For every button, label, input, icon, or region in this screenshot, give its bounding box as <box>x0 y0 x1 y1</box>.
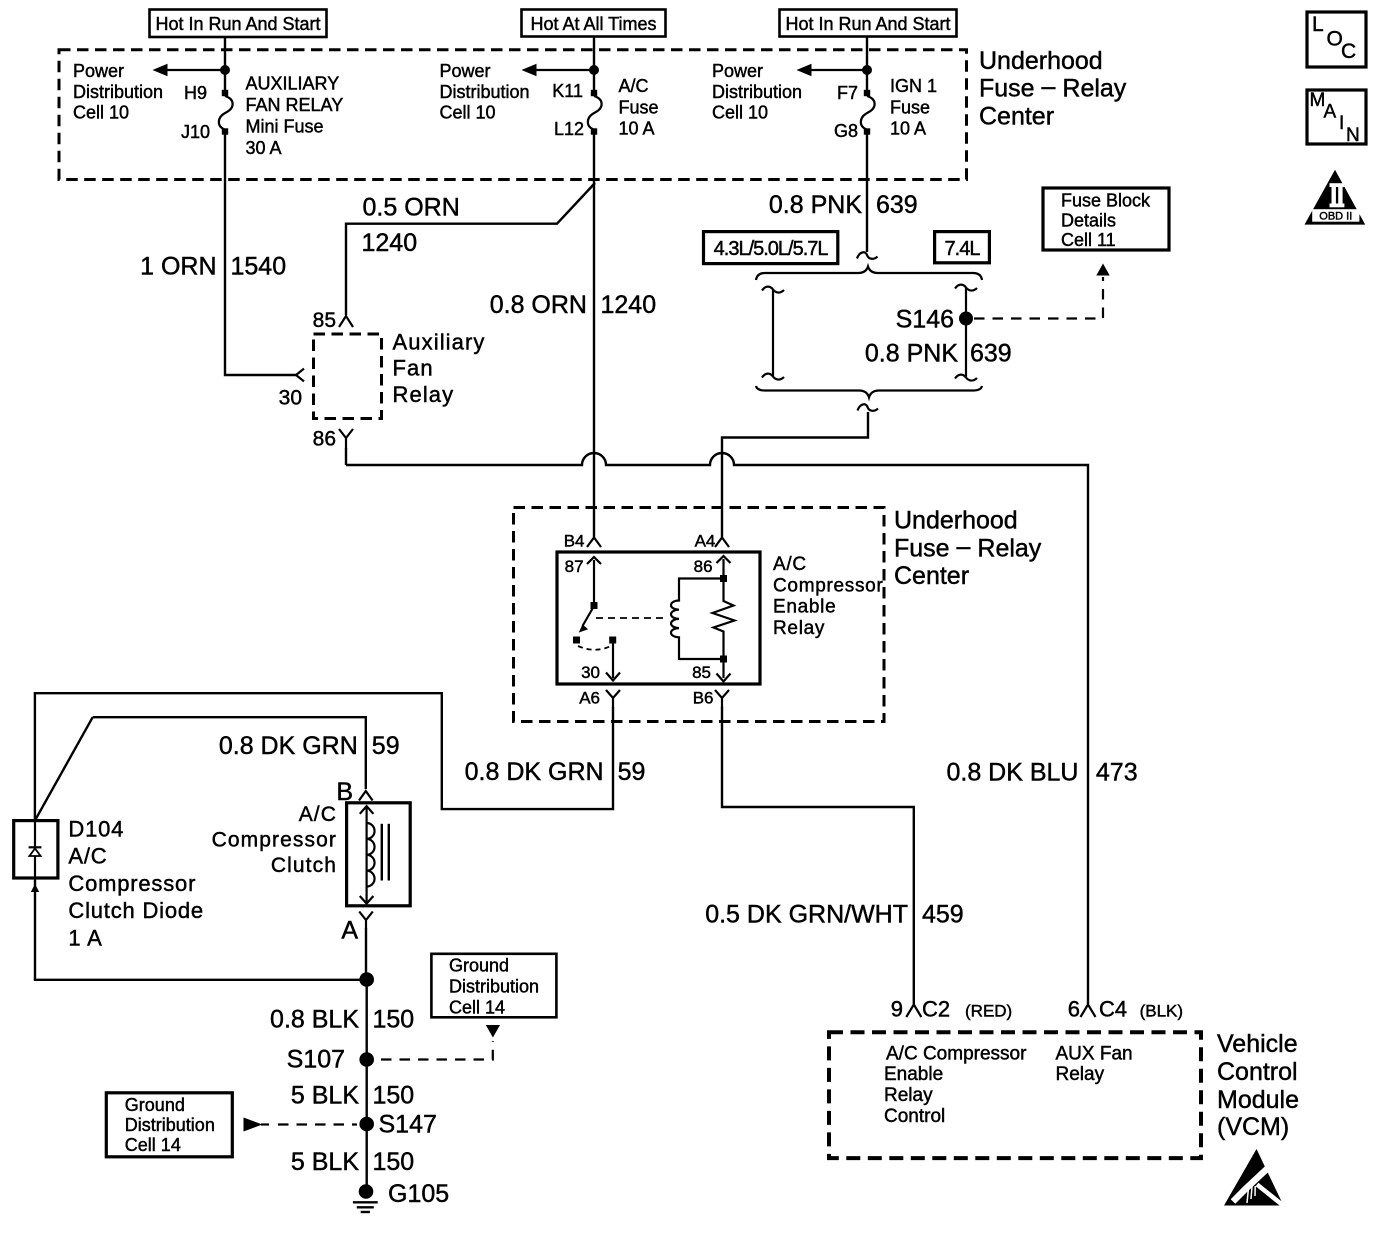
wire: 0.5 ORN 1240 branch from A/C fuse wire to Aux relay pin 85 <box>346 183 595 315</box>
connector fork pin A4 <box>715 538 729 548</box>
svg-text:Relay: Relay <box>773 618 825 639</box>
node: Hot At All Times (center feed) <box>522 10 666 37</box>
label: A/C Compressor Enable Relay <box>773 554 883 639</box>
svg-text:1240: 1240 <box>601 291 657 319</box>
svg-text:J10: J10 <box>181 122 210 142</box>
clutch coil with double-ended arrow <box>360 806 375 903</box>
svg-text:L: L <box>1312 13 1324 36</box>
svg-text:0.5 ORN: 0.5 ORN <box>363 193 460 221</box>
svg-text:Clutch: Clutch <box>271 854 337 877</box>
label: 0.5 DK GRN/WHT 459 <box>705 901 964 929</box>
svg-text:87: 87 <box>565 557 584 576</box>
coil bottom pad (pin 85 node) <box>720 656 727 663</box>
label: 0.8 DK GRN 59 (left, at clutch B) <box>219 732 400 760</box>
module: Vehicle Control Module box (dashed) <box>829 1032 1201 1158</box>
junction dot fuse2 <box>589 65 599 75</box>
relay internal pin 87 arrow up <box>587 557 601 604</box>
svg-text:Cell 14: Cell 14 <box>125 1135 181 1155</box>
svg-text:150: 150 <box>373 1148 415 1176</box>
coil top pad (pin 86 node) <box>720 575 727 582</box>
dashed reference from S107 to Ground Distribution <box>381 1041 493 1060</box>
pin label 9 C2 (RED) <box>891 997 1012 1022</box>
svg-text:0.8 DK GRN: 0.8 DK GRN <box>219 732 358 760</box>
brace (top) over splice options <box>756 267 982 281</box>
splice S147 <box>359 1117 374 1132</box>
pin G8 <box>864 128 870 134</box>
svg-text:N: N <box>1346 125 1360 146</box>
svg-text:1 A: 1 A <box>68 925 102 950</box>
svg-text:59: 59 <box>618 758 646 786</box>
svg-text:A: A <box>1324 102 1337 123</box>
svg-text:0.5 DK GRN/WHT: 0.5 DK GRN/WHT <box>705 901 908 929</box>
junction dot fuse1 <box>220 65 230 75</box>
junction dot fuse3 <box>862 65 872 75</box>
wire: IGN1 fuse output down to splice brace <box>866 134 868 252</box>
connector fork pin B4 <box>587 538 601 548</box>
svg-text:86: 86 <box>694 557 713 576</box>
node: Hot In Run And Start (right feed) <box>780 10 957 37</box>
pin H9 <box>222 90 228 96</box>
svg-text:0.8 BLK: 0.8 BLK <box>270 1006 359 1034</box>
relay K1: Auxiliary Fan Relay (dashed outline) <box>314 334 382 419</box>
wire from Hot box 3 down <box>866 37 868 91</box>
svg-text:30: 30 <box>279 387 302 410</box>
wire: B6 output to VCM pin C2 (0.5 DK GRN/WHT 459) <box>722 707 914 1004</box>
fuse F3: IGN 1 Fuse 10A <box>712 37 937 141</box>
svg-text:459: 459 <box>922 901 964 929</box>
svg-text:IGN 1: IGN 1 <box>890 76 937 96</box>
svg-text:Ground: Ground <box>449 955 509 975</box>
label: 5 BLK 150 (above S147) <box>291 1082 414 1110</box>
svg-text:5 BLK: 5 BLK <box>291 1148 359 1176</box>
relay coil <box>671 579 720 660</box>
ground G105 <box>353 1180 449 1212</box>
svg-text:B6: B6 <box>693 689 714 708</box>
svg-text:10 A: 10 A <box>890 119 926 139</box>
label: Underhood Fuse-Relay Center (top) <box>979 47 1127 130</box>
svg-text:OBD II: OBD II <box>1319 210 1352 222</box>
svg-text:Center: Center <box>894 562 969 590</box>
svg-text:1 ORN: 1 ORN <box>140 253 216 281</box>
dashed actuator link from switch to coil <box>596 617 664 619</box>
svg-text:C: C <box>1341 40 1356 63</box>
brace (bottom) under splice options <box>756 386 982 398</box>
svg-text:A: A <box>341 917 358 945</box>
connector fork at Aux relay pin 85 <box>339 316 353 327</box>
svg-text:30: 30 <box>581 663 600 682</box>
svg-text:L12: L12 <box>554 119 584 139</box>
wire: clutch A down to ground junction <box>365 928 367 980</box>
svg-text:A/C: A/C <box>68 844 107 869</box>
svg-text:A/C: A/C <box>619 76 649 96</box>
svg-text:Compressor: Compressor <box>773 575 883 596</box>
wire: 1 ORN 1540 from J10 down to Aux Fan Relay pin 30 <box>225 134 296 375</box>
svg-text:A4: A4 <box>695 531 716 550</box>
wire to Power Distribution arrow (fuse2) <box>535 69 594 71</box>
svg-text:Distribution: Distribution <box>712 82 802 102</box>
pin label 6 C4 (BLK) <box>1068 997 1183 1022</box>
svg-text:A6: A6 <box>579 689 600 708</box>
svg-text:Fuse: Fuse <box>890 97 930 117</box>
node: Hot In Run And Start (left feed) <box>150 10 327 38</box>
svg-text:0.8 PNK: 0.8 PNK <box>769 191 862 219</box>
svg-text:C4: C4 <box>1099 997 1127 1022</box>
bracket: 7.4L option with splice S146 <box>955 285 977 381</box>
svg-text:150: 150 <box>373 1006 415 1034</box>
label: 0.8 DK GRN 59 (right, at A6) <box>465 758 646 786</box>
wire: A/C fuse output down to relay pin B4 <box>593 134 595 537</box>
svg-text:Control: Control <box>1217 1058 1298 1086</box>
svg-text:Vehicle: Vehicle <box>1217 1030 1298 1058</box>
label: 0.8 ORN 1240 <box>490 291 656 319</box>
svg-text:Relay: Relay <box>884 1085 933 1106</box>
svg-text:Mini Fuse: Mini Fuse <box>246 117 324 137</box>
svg-text:Distribution: Distribution <box>125 1115 215 1135</box>
svg-text:1540: 1540 <box>231 253 287 281</box>
relay internal pin 30 arrow down <box>606 643 620 681</box>
label: 0.8 DK BLU 473 <box>946 759 1137 787</box>
clutch plates <box>382 824 389 881</box>
svg-text:Hot In Run And Start: Hot In Run And Start <box>155 14 320 34</box>
bracket: 4.3L/5.0L/5.7L option <box>762 287 784 380</box>
label: engine 4.3L/5.0L/5.7L box <box>704 232 838 264</box>
label: D104 A/C Compressor Clutch Diode 1 A <box>68 817 204 951</box>
svg-text:150: 150 <box>373 1082 415 1110</box>
relay internal pin 85 arrow down <box>717 662 731 682</box>
wire to Power Distribution arrow (fuse1) <box>166 69 225 71</box>
svg-text:F7: F7 <box>837 83 858 103</box>
svg-text:1240: 1240 <box>362 229 418 257</box>
svg-text:AUX Fan: AUX Fan <box>1056 1043 1133 1064</box>
svg-text:4.3L/5.0L/5.7L: 4.3L/5.0L/5.7L <box>714 238 829 260</box>
svg-text:Distribution: Distribution <box>73 82 163 102</box>
clutch L1: A/C Compressor Clutch box <box>347 803 411 906</box>
wire from Hot At All Times down <box>593 37 595 91</box>
svg-text:Cell 10: Cell 10 <box>440 103 496 123</box>
wire to Power Distribution arrow (fuse3) <box>810 69 867 71</box>
svg-text:Compressor: Compressor <box>68 871 196 896</box>
svg-text:Power: Power <box>73 61 124 81</box>
svg-text:AUXILIARY: AUXILIARY <box>246 74 340 94</box>
icon: OBD II triangle <box>1305 170 1366 225</box>
connector fork VCM pin C4 <box>1081 1005 1096 1018</box>
wire-break curl below bottom brace <box>858 404 879 411</box>
svg-text:S107: S107 <box>287 1046 345 1074</box>
svg-text:Underhood: Underhood <box>894 507 1018 535</box>
label: Vehicle Control Module (VCM) <box>1217 1030 1299 1141</box>
relay internal pin 86 arrow up <box>717 556 731 575</box>
svg-text:S147: S147 <box>379 1111 437 1139</box>
svg-text:Fuse Block: Fuse Block <box>1061 191 1151 211</box>
connector fork pin A6 <box>606 690 620 708</box>
connector fork clutch terminal B <box>359 791 373 801</box>
svg-text:Control: Control <box>884 1106 945 1127</box>
svg-text:5 BLK: 5 BLK <box>291 1082 359 1110</box>
icon: ESD sensitive symbol <box>1224 1149 1285 1207</box>
splice S107 <box>359 1052 374 1067</box>
svg-text:(RED): (RED) <box>965 1002 1012 1021</box>
Underhood Fuse-Relay Center box (top, dashed) <box>59 50 967 180</box>
svg-text:Cell 11: Cell 11 <box>1061 230 1116 250</box>
junction dot below clutch A <box>359 972 374 987</box>
svg-text:FAN RELAY: FAN RELAY <box>246 95 344 115</box>
relay switch output pad (pin 30) <box>609 637 616 644</box>
svg-text:C2: C2 <box>922 997 950 1022</box>
diode D104 symbol <box>29 821 42 878</box>
connector fork at Aux relay pin 86 <box>339 429 353 449</box>
svg-text:473: 473 <box>1096 759 1138 787</box>
svg-text:Center: Center <box>979 102 1054 130</box>
dashed reference from S146 to Fuse Block Details <box>974 277 1103 319</box>
label: Auxiliary Fan Relay <box>393 329 486 406</box>
svg-text:30 A: 30 A <box>246 138 282 158</box>
icon: LOC box <box>1307 12 1366 67</box>
svg-text:0.8 DK GRN: 0.8 DK GRN <box>465 758 604 786</box>
relay switch blade with arrow <box>579 606 594 633</box>
wire from Hot box 1 down <box>224 37 226 91</box>
svg-text:G8: G8 <box>834 121 858 141</box>
svg-text:(BLK): (BLK) <box>1140 1002 1183 1021</box>
svg-text:Fan: Fan <box>393 356 434 381</box>
wire: ground chain down to G105 <box>366 980 368 1192</box>
svg-text:10 A: 10 A <box>619 119 655 139</box>
label: 0.8 PNK 639 (lower, 7.4L branch) <box>865 339 1012 367</box>
svg-text:(VCM): (VCM) <box>1217 1113 1289 1141</box>
label: Ground Distribution Cell 14 box (left) <box>106 1093 232 1157</box>
svg-text:7.4L: 7.4L <box>945 238 981 260</box>
label: 1 ORN 1540 <box>140 253 286 281</box>
dashed reference from Ground Distribution to S147 <box>244 1118 358 1132</box>
pin K11 <box>591 90 597 96</box>
svg-text:0.8 ORN: 0.8 ORN <box>490 291 587 319</box>
svg-text:59: 59 <box>372 732 400 760</box>
wire from Aux relay 86 down to main horizontal run <box>345 448 347 465</box>
svg-text:Distribution: Distribution <box>449 977 539 997</box>
icon: MAIN box <box>1307 90 1366 146</box>
diode D104 box <box>14 821 58 878</box>
svg-text:639: 639 <box>970 339 1012 367</box>
svg-text:Cell 10: Cell 10 <box>712 103 768 123</box>
svg-text:A/C: A/C <box>299 803 337 826</box>
wire below diode with direction arrow <box>31 878 39 980</box>
svg-text:0.8 DK BLU: 0.8 DK BLU <box>946 759 1078 787</box>
svg-text:A/C Compressor: A/C Compressor <box>886 1043 1027 1064</box>
fuse element F3 (S-curve) <box>861 96 875 130</box>
dashed throw arc between switch pads <box>578 646 611 650</box>
svg-text:H9: H9 <box>184 83 207 103</box>
wire-break curl at top brace <box>857 252 878 259</box>
label: Underhood Fuse-Relay Center (relay) <box>894 507 1042 590</box>
svg-text:639: 639 <box>876 191 918 219</box>
svg-text:Fuse: Fuse <box>619 97 659 117</box>
relay K2: A/C Compressor Enable Relay (solid box) <box>557 552 760 684</box>
svg-text:Distribution: Distribution <box>440 82 530 102</box>
label: Fuse Block Details Cell 11 box <box>1043 188 1169 250</box>
svg-text:Cell 14: Cell 14 <box>449 998 505 1018</box>
svg-text:6: 6 <box>1068 997 1080 1022</box>
svg-text:Compressor: Compressor <box>212 828 337 851</box>
svg-text:Fuse – Relay: Fuse – Relay <box>894 532 1042 562</box>
svg-text:9: 9 <box>891 997 903 1022</box>
svg-text:Enable: Enable <box>884 1064 943 1085</box>
fuse F2: A/C Fuse 10A <box>440 37 659 139</box>
svg-text:Hot At All Times: Hot At All Times <box>530 14 656 34</box>
svg-text:B4: B4 <box>564 531 585 550</box>
pin F7 <box>864 90 870 96</box>
svg-text:K11: K11 <box>552 81 583 101</box>
svg-text:86: 86 <box>313 428 336 451</box>
svg-text:I: I <box>1339 113 1344 134</box>
connector fork pin B6 <box>715 690 729 708</box>
connector fork clutch terminal A <box>359 912 373 930</box>
svg-text:Relay: Relay <box>393 382 455 407</box>
svg-text:Underhood: Underhood <box>979 47 1103 75</box>
Underhood Fuse-Relay Center box (relay, dashed) <box>514 508 885 722</box>
fuse F1: AUXILIARY FAN RELAY Mini Fuse 30A <box>73 37 343 158</box>
label: AUX Fan Relay <box>1056 1043 1133 1085</box>
wire: A6 output loop to clutch/diode (0.8 DK GRN 59) <box>35 693 613 821</box>
connector fork VCM pin C2 <box>906 1005 921 1018</box>
label: engine 7.4L box <box>935 232 990 263</box>
svg-text:Enable: Enable <box>773 597 836 618</box>
wire from splice output to relay pin A4 <box>722 412 868 537</box>
svg-text:G105: G105 <box>388 1180 449 1208</box>
svg-text:Auxiliary: Auxiliary <box>393 329 486 354</box>
relay switch NC pad <box>573 637 580 644</box>
wire: main horizontal run y=465 with hops, to right-side drop <box>346 453 1088 1004</box>
fuse element F1 (S-curve) <box>219 96 233 130</box>
relay internal resistor (parallel with coil) <box>713 582 735 656</box>
pin J10 <box>222 128 228 134</box>
label: 0.8 BLK 150 <box>270 1006 414 1034</box>
pin L12 <box>591 128 597 134</box>
svg-text:Fuse – Relay: Fuse – Relay <box>979 73 1127 103</box>
wire: diode bottom to ground junction <box>34 979 367 981</box>
svg-text:Hot In Run And Start: Hot In Run And Start <box>785 14 950 34</box>
label: 0.8 PNK 639 (upper) <box>769 191 918 219</box>
label: 5 BLK 150 (below S147) <box>291 1148 414 1176</box>
svg-text:Relay: Relay <box>1056 1064 1105 1085</box>
svg-text:Power: Power <box>440 61 491 81</box>
svg-text:S146: S146 <box>896 306 954 334</box>
label: Ground Distribution Cell 14 box (right) <box>431 954 556 1018</box>
svg-text:85: 85 <box>313 309 336 332</box>
svg-text:Cell 10: Cell 10 <box>73 103 129 123</box>
splice S146 <box>959 312 973 326</box>
fuse element F2 (S-curve) <box>588 96 602 130</box>
svg-text:85: 85 <box>692 663 711 682</box>
label: A/C Compressor Enable Relay Control <box>884 1043 1027 1127</box>
relay switch common pad <box>591 602 598 609</box>
wire: branch to clutch terminal B <box>93 717 366 789</box>
svg-text:Ground: Ground <box>125 1095 185 1115</box>
svg-text:0.8 PNK: 0.8 PNK <box>865 339 958 367</box>
label: A/C Compressor Clutch <box>212 803 337 877</box>
svg-text:A/C: A/C <box>773 554 807 575</box>
connector fork at Aux relay pin 30 <box>296 369 304 382</box>
svg-text:Clutch Diode: Clutch Diode <box>68 898 204 923</box>
svg-text:Module: Module <box>1217 1086 1299 1114</box>
wire: diagonal to diode top <box>35 717 93 820</box>
svg-text:Details: Details <box>1061 211 1116 231</box>
svg-text:Power: Power <box>712 61 763 81</box>
svg-text:D104: D104 <box>68 817 124 842</box>
